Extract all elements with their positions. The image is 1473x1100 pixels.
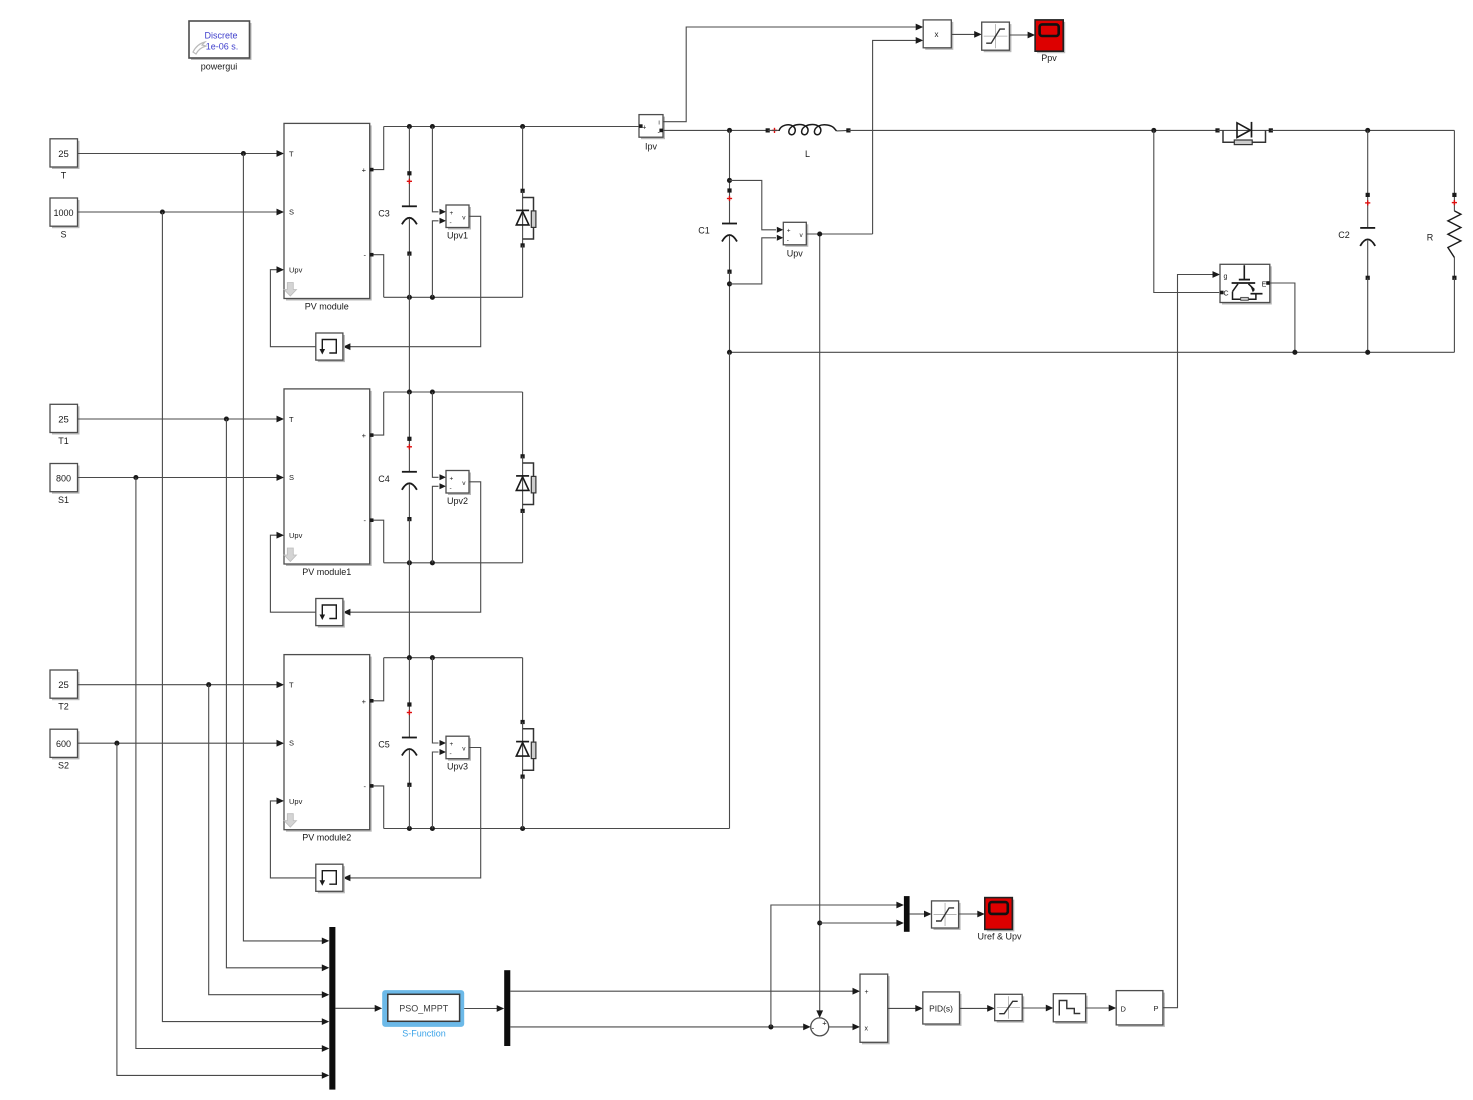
wire PV module1 + output to top rail [370, 392, 384, 437]
wire Upv1 output to memory block [343, 216, 481, 350]
voltage sensor Upv2 [446, 471, 471, 507]
svg-text:+: + [362, 697, 367, 706]
capacitor C5 [378, 658, 417, 829]
svg-text:x: x [935, 30, 939, 39]
wire C1 negative bus down to section 3 rail [729, 352, 731, 828]
wire T2 bus down to mux input 5 [209, 685, 330, 998]
wire top rail section 1 (PV+ bus to Ipv sensor) [384, 124, 639, 129]
svg-text:+: + [362, 166, 367, 175]
PV module block PV module1 [284, 389, 372, 577]
wire saturation to scope Ppv [1009, 32, 1035, 39]
svg-text:T2: T2 [58, 702, 69, 712]
wire S1 bus down to mux input 6 [136, 478, 329, 1052]
wire saturation to scope Uref & Upv [959, 911, 985, 918]
wire S2 to PV S input [78, 740, 285, 747]
wire S to PV S input [78, 209, 285, 216]
mux MX1 (6 inputs) [329, 927, 375, 1090]
svg-text:Upv3: Upv3 [447, 762, 468, 772]
wire bottom rail (output return) [727, 350, 1454, 355]
memory block M2 [316, 599, 345, 628]
svg-text:R: R [1427, 233, 1434, 243]
wire demux output 1 (Pref) to + input [510, 988, 860, 995]
saturation block (control) [995, 994, 1024, 1022]
wire memory M1 to PV module Upv input [270, 266, 315, 346]
voltage sensor Upv (main) [783, 222, 808, 258]
svg-text:T: T [289, 415, 294, 424]
wire top rail to Upv2 + input [432, 392, 446, 480]
svg-text:D: D [1121, 1004, 1127, 1013]
svg-text:25: 25 [58, 149, 69, 160]
svg-text:L: L [805, 149, 810, 159]
constant S (value 1000) [50, 198, 80, 240]
svg-text:-: - [811, 1023, 814, 1032]
PID controller PID(s) [923, 992, 962, 1026]
svg-text:i: i [658, 119, 659, 126]
svg-text:Uref & Upv: Uref & Upv [977, 932, 1022, 942]
svg-text:Upv1: Upv1 [447, 231, 468, 241]
svg-text:C3: C3 [378, 208, 390, 218]
current sensor Ipv [639, 115, 665, 152]
wire diode D4 to output node [1271, 128, 1455, 133]
wire to PID controller [888, 1005, 923, 1012]
wire top rail to Upv3 + input [432, 658, 446, 746]
wire bottom rail section 2 [384, 560, 523, 565]
svg-text:+: + [362, 431, 367, 440]
svg-text:Upv2: Upv2 [447, 496, 468, 506]
scope Ppv [1035, 20, 1065, 63]
scope Uref & Upv [977, 898, 1022, 942]
svg-text:-: - [787, 237, 789, 244]
wire T to PV T input [78, 150, 285, 157]
scope mux MX2 (2 inputs) [904, 896, 924, 932]
IGBT Q1 [1220, 264, 1272, 304]
svg-text:1000: 1000 [53, 208, 73, 218]
wire bottom rail to Upv3 - input [432, 749, 446, 829]
svg-text:+: + [450, 210, 454, 217]
capacitor C4 [378, 392, 417, 563]
wire bottom rail section 3 (extends to C1 negative bus) [384, 826, 730, 831]
wire T2 to PV T input [78, 681, 285, 688]
PWM generator block (D to P) [1116, 991, 1165, 1027]
voltage sensor Upv3 [446, 736, 471, 772]
wire S1 to PV S input [78, 474, 285, 481]
wire top rail to Upv1 + input [432, 127, 446, 215]
svg-text:Upv: Upv [289, 266, 303, 275]
svg-text:PV module2: PV module2 [302, 833, 351, 843]
svg-text:-: - [450, 219, 452, 226]
svg-text:S: S [289, 473, 294, 482]
svg-text:Ipv: Ipv [645, 142, 658, 152]
zero-order hold block [1053, 994, 1087, 1024]
svg-text:PID(s): PID(s) [929, 1004, 953, 1014]
wire PV module2 + output to top rail [370, 658, 384, 703]
inductor L [766, 125, 851, 159]
svg-text:powergui: powergui [201, 62, 238, 72]
wire PWM P output up to IGBT gate [1163, 271, 1220, 1008]
wire S bus down to mux input 4 [162, 212, 329, 1025]
svg-text:g: g [1224, 273, 1228, 280]
wire T1 to PV T input [78, 416, 285, 423]
svg-text:C1: C1 [698, 226, 710, 236]
svg-text:C4: C4 [378, 474, 390, 484]
wire PSO_MPPT output to demux [464, 1005, 504, 1012]
svg-text:Upv: Upv [289, 531, 303, 540]
capacitor C3 [378, 127, 417, 298]
wire zero-order hold to PWM generator [1086, 1005, 1117, 1012]
wire mux output to PSO_MPPT [375, 1005, 383, 1012]
svg-text:25: 25 [58, 680, 69, 691]
constant T (value 25) [50, 139, 80, 181]
svg-text:T1: T1 [58, 436, 69, 446]
diode D1 (bypass) with snubber [516, 127, 536, 298]
wire series link section 1 to section 2 [408, 297, 410, 392]
svg-text:E: E [1262, 282, 1267, 289]
wire scope mux to saturation [924, 911, 932, 918]
svg-text:+: + [450, 475, 454, 482]
wire T bus down to mux input 1 [243, 154, 329, 945]
wire memory M2 to PV module1 Upv input [270, 532, 315, 612]
wire C1 bottom branch to Upv - input [730, 235, 784, 284]
svg-text:-: - [450, 485, 452, 492]
svg-text:S: S [60, 230, 66, 240]
svg-text:T: T [289, 150, 294, 159]
constant T1 (value 25) [50, 404, 80, 446]
wire series link section 2 to section 3 [408, 563, 410, 658]
memory block M1 [316, 333, 345, 362]
svg-text:P: P [1153, 1004, 1158, 1013]
capacitor C2 [1338, 130, 1375, 352]
PV module block PV module [284, 123, 372, 311]
wire Upv measurement down to sum block [816, 234, 823, 1018]
wire PV module + output to top rail [370, 127, 384, 172]
saturation block (scope) [932, 901, 961, 930]
resistor R [1427, 130, 1461, 352]
wire sum output to x input [829, 1024, 860, 1031]
wire bottom rail to Upv2 - input [432, 483, 446, 563]
wire PV module2 - output to bottom rail [370, 784, 384, 828]
demux DX1 (2 outputs) [504, 970, 510, 1046]
wire Upv branch to scope mux [820, 920, 904, 927]
svg-text:PV module1: PV module1 [302, 567, 351, 577]
svg-text:S-Function: S-Function [402, 1029, 446, 1039]
wire C1 top branch to Upv + input [730, 180, 784, 232]
wire S2 bus down to mux input 8 [117, 743, 329, 1079]
svg-text:PV module: PV module [305, 302, 349, 312]
wire product to saturation [951, 31, 981, 38]
constant T2 (value 25) [50, 670, 80, 712]
diode D3 (bypass) with snubber [516, 658, 536, 829]
svg-text:800: 800 [56, 474, 71, 484]
wire Upv output to product column [806, 231, 872, 236]
svg-text:S2: S2 [58, 761, 69, 771]
svg-text:C2: C2 [1338, 230, 1350, 240]
two-input block (+ x) [860, 974, 890, 1044]
capacitor C1 [698, 130, 737, 352]
wire Upv2 output to memory block [343, 482, 481, 616]
svg-text:+: + [822, 1019, 827, 1028]
memory block M3 [316, 864, 345, 893]
svg-text:Ppv: Ppv [1041, 53, 1057, 63]
svg-text:+: + [865, 989, 869, 996]
svg-text:PSO_MPPT: PSO_MPPT [399, 1004, 449, 1014]
wire top rail section 3 [384, 655, 523, 660]
wire bottom rail section 1 [384, 295, 523, 300]
wire rail junction down to IGBT collector [1154, 130, 1219, 292]
wire main rail Ipv to inductor L [663, 128, 768, 133]
svg-text:C: C [1224, 291, 1229, 298]
constant S1 (value 800) [50, 464, 80, 506]
constant S2 (value 600) [50, 729, 80, 771]
svg-text:+: + [450, 741, 454, 748]
wire saturation to zero-order hold [1022, 1005, 1053, 1012]
saturation block (Ppv) [982, 22, 1012, 52]
svg-text:Upv: Upv [787, 249, 804, 259]
svg-text:x: x [865, 1025, 869, 1032]
diode D2 (bypass) with snubber [516, 392, 536, 563]
svg-text:Upv: Upv [289, 797, 303, 806]
svg-text:Discrete: Discrete [204, 31, 237, 41]
svg-text:1e-06 s.: 1e-06 s. [206, 42, 239, 52]
sum junction S1 (Uref - Upv) [811, 1018, 829, 1036]
wire Upv signal up to product [873, 37, 924, 234]
svg-text:S1: S1 [58, 495, 69, 505]
svg-text:S: S [289, 739, 294, 748]
diode D4 (boost) with snubber [1215, 122, 1272, 145]
wire PV module1 - output to bottom rail [370, 518, 384, 562]
S-function PSO_MPPT [382, 990, 464, 1038]
svg-text:+: + [642, 124, 646, 131]
svg-text:T: T [61, 171, 67, 181]
svg-text:-: - [450, 751, 452, 758]
wire Uref branch up to scope mux [771, 902, 904, 1027]
wire Ipv i output to product [663, 24, 923, 122]
wire PID to saturation [960, 1005, 995, 1012]
voltage sensor Upv1 [446, 205, 471, 241]
svg-text:25: 25 [58, 415, 69, 426]
svg-text:T: T [289, 681, 294, 690]
wire Upv3 output to memory block [343, 748, 481, 882]
powergui block [189, 21, 252, 72]
svg-text:600: 600 [56, 739, 71, 749]
wire memory M3 to PV module2 Upv input [270, 798, 315, 878]
wire IGBT emitter to bottom rail [1270, 283, 1295, 352]
wire PV module - output to bottom rail [370, 253, 384, 297]
wire top rail section 2 [384, 389, 523, 394]
wire inductor L to diode D4 [848, 128, 1217, 133]
product block (Ipv x Upv) [923, 20, 953, 50]
wire bottom rail to Upv1 - input [432, 218, 446, 297]
wire T1 bus down to mux input 3 [226, 419, 329, 971]
wire demux output 2 (Uref) to sum junction [510, 1024, 810, 1031]
svg-text:S: S [289, 208, 294, 217]
svg-text:C5: C5 [378, 740, 390, 750]
svg-text:+: + [787, 227, 791, 234]
PV module block PV module2 [284, 655, 372, 843]
